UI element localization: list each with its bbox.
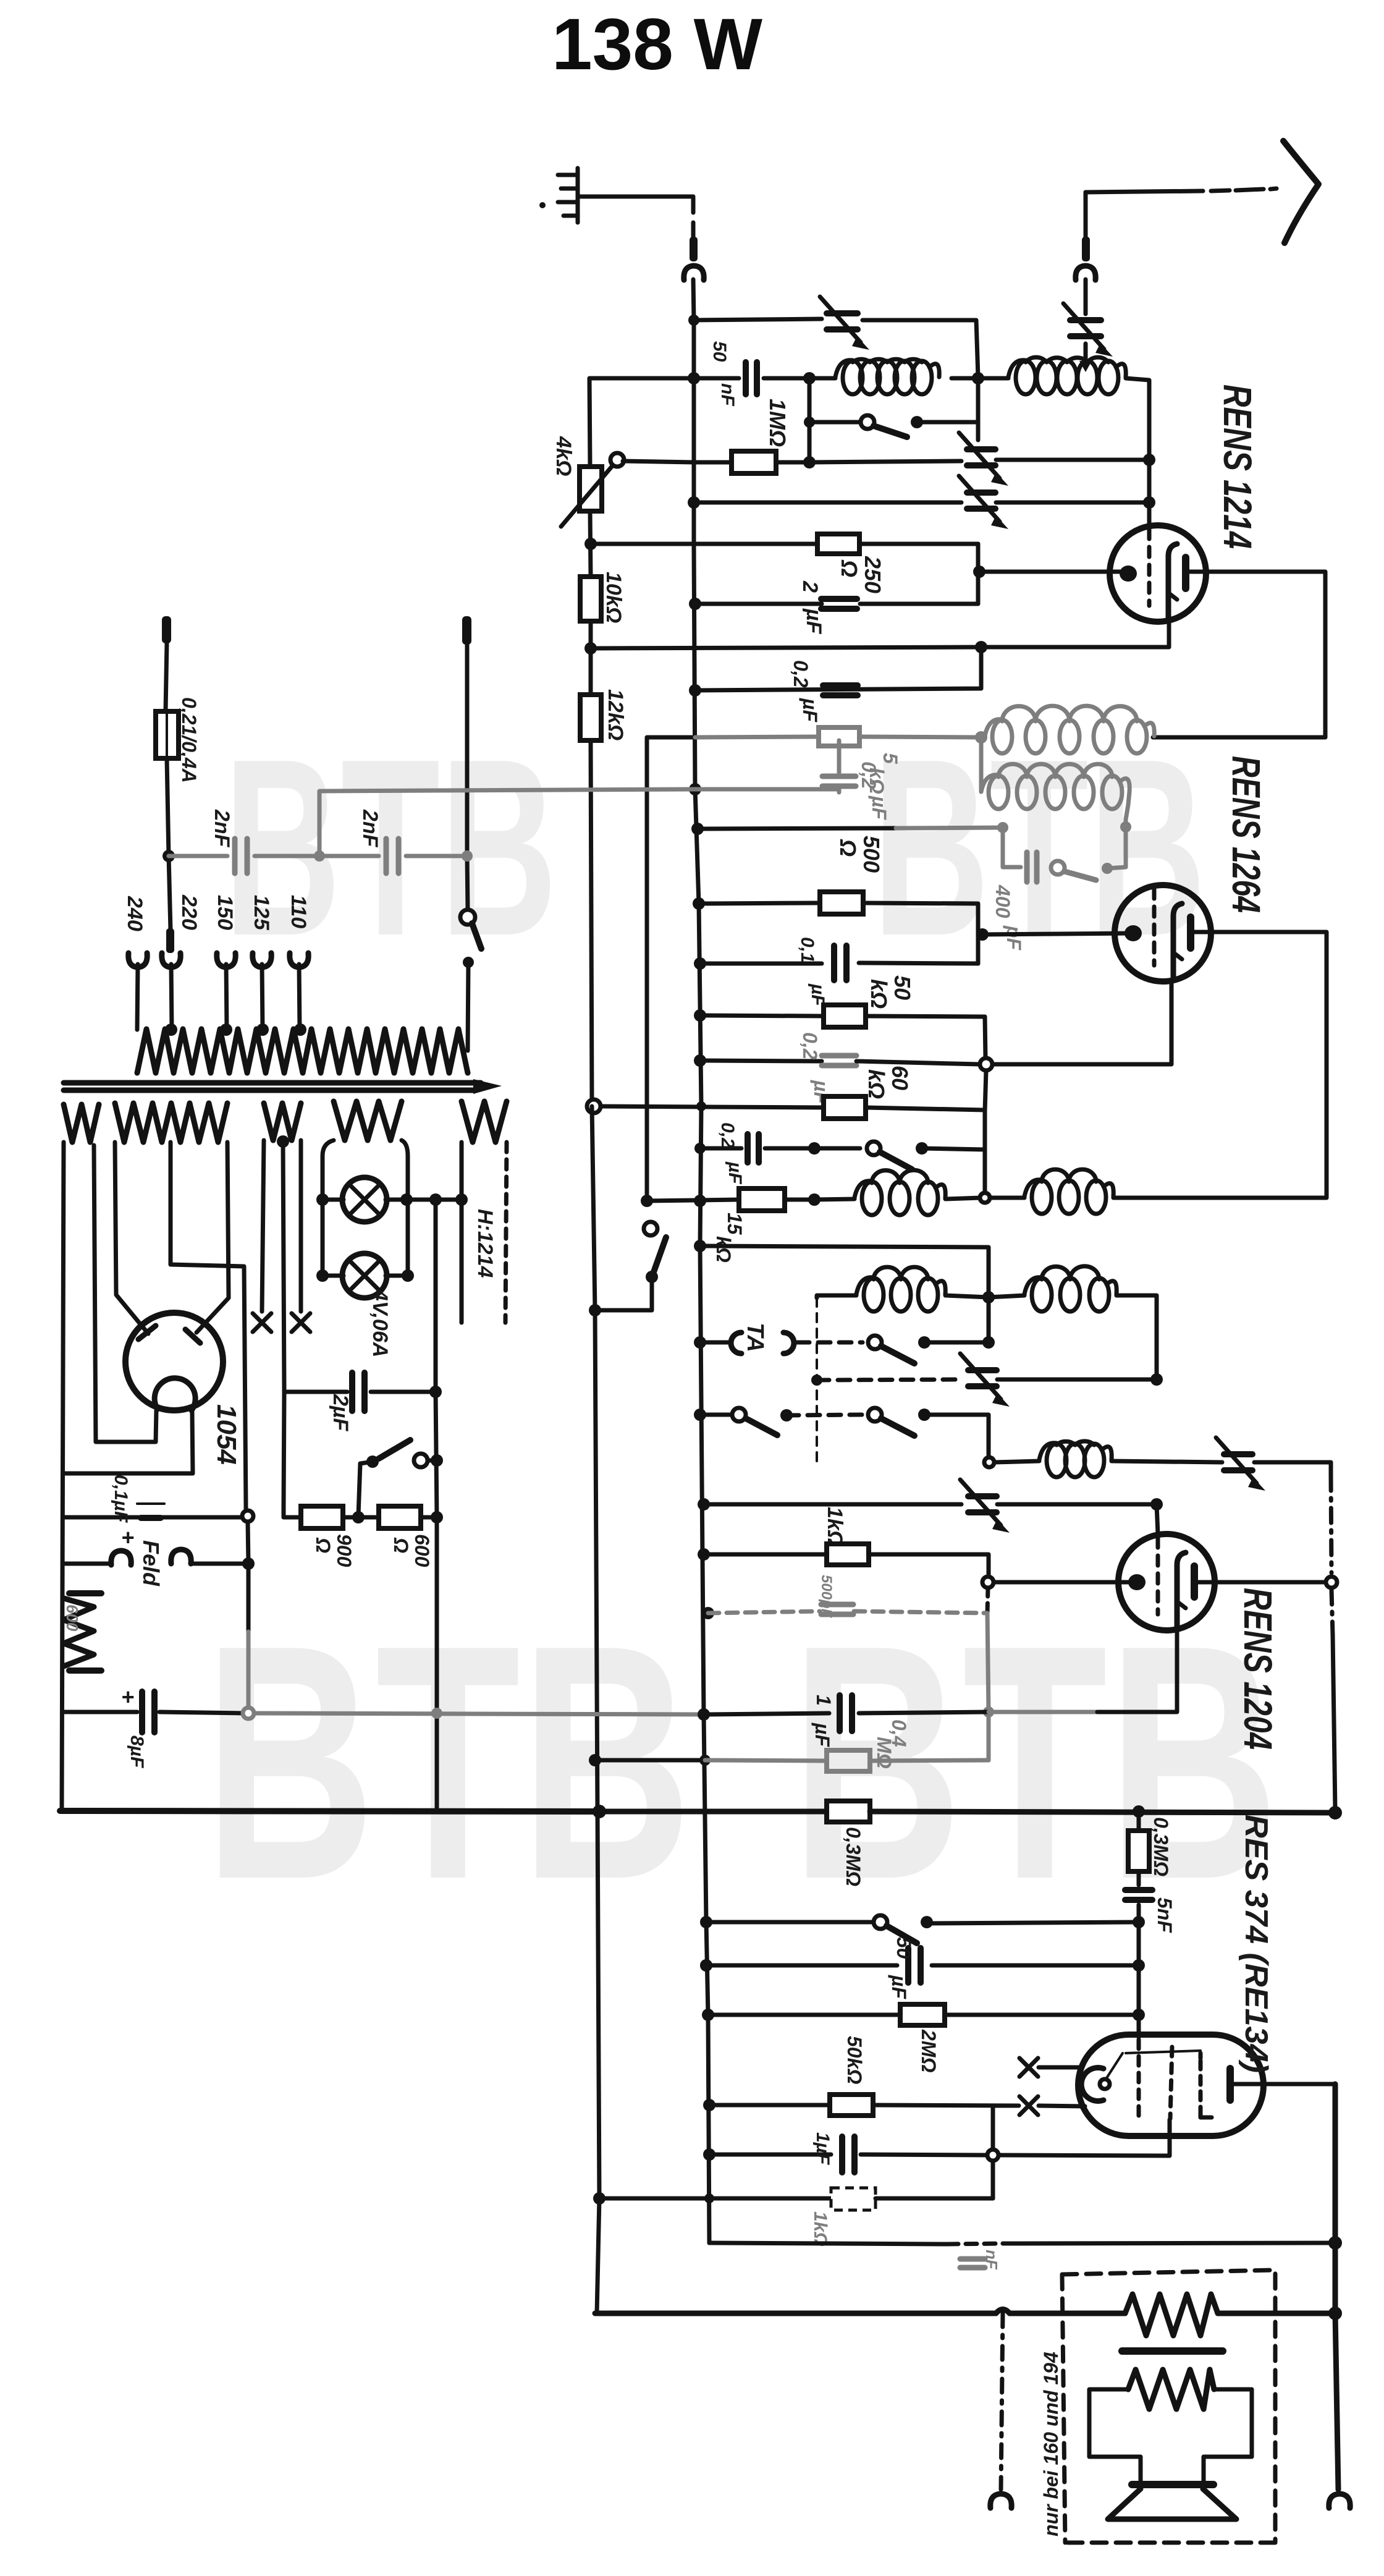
plug pin 220 <box>166 928 174 953</box>
tube RENS1204 grid dashed <box>1156 1538 1160 1614</box>
grid chain 0.3M vertical <box>1137 1811 1141 1831</box>
tube RES374 grid wire <box>1126 2051 1200 2053</box>
tube RENS1214 envelope <box>1110 525 1206 622</box>
wire tube1 anode lead <box>1153 572 1325 737</box>
capacitor 2uF <box>821 599 857 609</box>
antenna coil 1 <box>835 360 853 377</box>
tube RES374 filament arc <box>1081 2068 1103 2101</box>
svg-text:+: + <box>121 1525 134 1550</box>
antenna arrow <box>1283 141 1319 243</box>
svg-text:TA: TA <box>742 1323 768 1352</box>
switch band 2 <box>867 1142 880 1155</box>
trimmer capacitor osc row1 <box>967 449 995 465</box>
dial lamp 1 <box>342 1177 387 1222</box>
wire tube2 anode lead <box>1113 932 1327 1198</box>
resistor 60 kOhm <box>824 1096 866 1119</box>
svg-text:4kΩ: 4kΩ <box>552 436 575 476</box>
grid bias capacitor <box>64 1515 243 1520</box>
capacitor 0.2uF band series <box>748 1134 759 1163</box>
resistor 50 kOhm <box>824 1005 866 1027</box>
gray heater line continues right (drawn in tube3 zone) <box>700 1959 712 1972</box>
wire coil2 right end to tube top vertical <box>1126 378 1149 457</box>
mains pin 1 <box>162 616 171 643</box>
svg-text:250: 250 <box>860 556 885 593</box>
secondary winding A left <box>64 1104 99 1142</box>
svg-text:RES 374 (RE134): RES 374 (RE134) <box>1238 1815 1274 2073</box>
wave switch row y683 <box>809 420 859 425</box>
gray anode row y1193 <box>647 737 695 1201</box>
HT right lead <box>196 1142 229 1332</box>
wire 50nF to node <box>764 376 809 381</box>
Feld sockets <box>64 1562 110 1566</box>
capacitor 2nF b <box>319 854 379 858</box>
capacitor 0.1uF grid2 <box>834 946 846 980</box>
switch coil short <box>861 415 874 429</box>
svg-text:+: + <box>121 1684 134 1710</box>
svg-text:1kΩ: 1kΩ <box>810 2211 830 2247</box>
capacitor 0.2uF gray cathode2 <box>822 1056 856 1066</box>
wire bus y612 to 50nF <box>694 376 739 381</box>
tube RES374 anode <box>1226 2069 1234 2100</box>
svg-text:400: 400 <box>992 884 1014 918</box>
svg-text:RENS 1264: RENS 1264 <box>1224 756 1268 913</box>
capacitor 5nF <box>1125 1890 1152 1900</box>
svg-text:0,2: 0,2 <box>790 660 812 688</box>
coil IF b <box>1024 1180 1042 1197</box>
left bus segment <box>590 511 592 1106</box>
dashed lead left speaker <box>1001 2313 1003 2489</box>
wire row y518 bus to grid trimmer <box>694 319 822 320</box>
antenna coil 2 <box>1008 360 1026 377</box>
row y3260 2M <box>702 2009 714 2021</box>
svg-text:Ω: Ω <box>835 839 861 857</box>
negative rail y2930 <box>60 1811 599 1811</box>
wire jack to bus <box>693 279 694 320</box>
wire cathode2 <box>992 980 1171 1064</box>
svg-text:10kΩ: 10kΩ <box>602 572 625 623</box>
wire ground to antenna input jack <box>580 195 693 199</box>
svg-text:Ω: Ω <box>390 1537 412 1553</box>
wire node to trimmer3 <box>809 461 961 462</box>
svg-text:0,2: 0,2 <box>858 761 880 789</box>
tube3 anode lead <box>1196 1580 1326 1585</box>
row y3486 1uF <box>703 2148 715 2161</box>
wire node to antenna coil1 <box>809 376 835 381</box>
coil IF a <box>854 1181 872 1198</box>
row y3110 switch <box>700 1916 712 1928</box>
row y813 bus to trimmer4 <box>688 496 700 509</box>
vertical x705 <box>436 1200 437 1811</box>
vertical x400 <box>246 1508 248 1632</box>
tube RENS1264 grid dot <box>1124 925 1142 941</box>
ground <box>558 168 578 222</box>
gray coil 2 <box>979 737 984 792</box>
main bus lower segment <box>700 1106 709 2243</box>
svg-text:0,21/0,4A: 0,21/0,4A <box>178 697 200 783</box>
resistor 0.3M rail series <box>827 1801 870 1822</box>
svg-text:µF: µF <box>888 1975 910 1999</box>
svg-text:110: 110 <box>287 895 310 928</box>
heater bypass cap 2uF <box>284 1390 347 1394</box>
tube RENS1204 envelope <box>1118 1534 1215 1630</box>
resistor 10k in left bus <box>580 577 601 621</box>
resistor 250 Ohm row y880 <box>817 534 859 554</box>
dashes TA row <box>797 1341 863 1345</box>
secondary winding E heater <box>462 1101 507 1142</box>
secondary to speaker frame <box>1089 2389 1141 2482</box>
svg-text:2nF: 2nF <box>358 809 382 848</box>
svg-text:220: 220 <box>177 894 201 930</box>
resistor 1MOhm <box>732 451 776 473</box>
row y2515 resistor <box>698 1548 710 1561</box>
speaker cone <box>1108 2489 1236 2519</box>
trimmer capacitor antenna series <box>1070 320 1101 336</box>
terminal sockets <box>129 953 147 967</box>
svg-text:kΩ: kΩ <box>866 979 892 1009</box>
wire grid to tube2 <box>982 933 1133 934</box>
coil bandfilter a2 <box>816 1298 818 1461</box>
tube RENS1214 cathode <box>1168 544 1177 619</box>
gray capacitor 400pF <box>1003 828 1021 867</box>
transformer core bar <box>1122 2347 1223 2355</box>
row y1462 bus to 500 Ohm <box>693 897 705 910</box>
svg-text:500: 500 <box>859 836 884 873</box>
gray bus row y1277 <box>689 783 701 795</box>
svg-text:500pF: 500pF <box>818 1575 835 1619</box>
svg-text:2MΩ: 2MΩ <box>918 2029 940 2072</box>
small gray cap on dashes <box>960 2259 985 2268</box>
svg-text:150: 150 <box>213 895 237 930</box>
svg-text:5: 5 <box>879 753 901 765</box>
gray switch <box>1051 861 1065 875</box>
row y1790 left-bus to 60k <box>587 1099 601 1113</box>
svg-text:2nF: 2nF <box>210 809 234 848</box>
svg-text:1054: 1054 <box>211 1404 242 1465</box>
tube RENS1264 cathode <box>1173 904 1182 979</box>
speaker terminal cup left <box>990 2494 1011 2508</box>
svg-text:600: 600 <box>63 1604 82 1632</box>
svg-text:1MΩ: 1MΩ <box>765 399 790 447</box>
plug pin antenna input <box>690 237 698 261</box>
row y2772 heater/hum gray <box>250 1713 704 1714</box>
rail y3743 <box>595 2311 996 2316</box>
row y2364 coil c + trimmer <box>984 1457 994 1467</box>
tube RENS1204 cathode <box>1177 1553 1186 1628</box>
filament return <box>993 2104 1019 2108</box>
row y3180 50uF <box>700 1959 712 1972</box>
svg-text:138 W: 138 W <box>552 4 763 85</box>
lamp row 2 <box>323 1274 408 1278</box>
row y1643 bus to 50k <box>694 1009 706 1022</box>
vertical x1583 518-683 <box>976 377 981 440</box>
row y2289 switch row <box>694 1409 706 1421</box>
grid node tube2 <box>976 928 989 941</box>
screen row y1117 <box>695 647 981 690</box>
svg-text:kΩ: kΩ <box>712 1236 735 1263</box>
wire link to antenna coil 2 <box>978 376 1008 381</box>
left outline vertical <box>62 1142 64 1811</box>
capacitor 50nF <box>746 362 757 394</box>
row y2848 grid leak 0.4M <box>589 1754 601 1766</box>
tube RENS1214 grid dashed <box>1147 529 1152 606</box>
gray anode coil 1 <box>985 719 1002 736</box>
svg-text:H:1214: H:1214 <box>473 1209 497 1278</box>
row y3557 dashed resistor <box>593 2192 605 2205</box>
svg-text:4V,06A: 4V,06A <box>368 1289 392 1357</box>
wire grid to tube1 <box>979 570 1128 574</box>
row y3406 50k <box>703 2099 715 2111</box>
node bus y612 <box>688 372 700 384</box>
mains pin 2 <box>462 616 471 645</box>
svg-text:kΩ: kΩ <box>864 1069 889 1099</box>
x mark heater bottom <box>1019 2096 1038 2115</box>
speaker top bar <box>1132 2481 1213 2488</box>
svg-text:0,3MΩ: 0,3MΩ <box>842 1827 864 1886</box>
svg-text:15: 15 <box>724 1213 746 1235</box>
svg-text:pF: pF <box>1003 925 1025 951</box>
svg-text:nur bei 160 und 194: nur bei 160 und 194 <box>1040 2352 1062 2536</box>
grid row tube3 <box>982 1577 994 1588</box>
x mark heater top <box>1019 2058 1038 2077</box>
tube RENS1214 grid dot <box>1120 566 1137 582</box>
row y3629 from bus corner <box>709 2243 947 2244</box>
vertical switch-bank link x1594 <box>985 1017 986 1192</box>
svg-text:1µF: 1µF <box>812 2132 833 2165</box>
secondary winding D lamps <box>334 1101 402 1140</box>
gray mains filter row y1385 <box>169 854 227 858</box>
tube RENS1264 anode bar <box>1187 917 1194 948</box>
trimmer capacitor osc row2 <box>967 493 995 509</box>
wire trimmer to antenna coil <box>1084 344 1088 366</box>
svg-text:600: 600 <box>411 1534 433 1567</box>
grid leak vertical gray <box>987 1588 988 1613</box>
wire coil1 to vertical node <box>951 376 978 381</box>
capacitor 0.2uF screen <box>823 685 858 695</box>
svg-text:µF: µF <box>725 1161 745 1184</box>
svg-text:Feld: Feld <box>138 1540 164 1587</box>
row y2016 <box>694 1240 706 1252</box>
wire tube1 top <box>1147 460 1152 526</box>
svg-text:nF: nF <box>982 2250 1001 2270</box>
trimmer T4 <box>968 1496 997 1512</box>
svg-text:RENS 1204: RENS 1204 <box>1236 1588 1280 1750</box>
capacitor 2nF a <box>235 839 247 873</box>
resistor 600 ohm <box>358 1515 379 1520</box>
socket cup antenna lead <box>1076 266 1095 280</box>
dashed row y2233 <box>811 1375 822 1386</box>
switch TA row <box>868 1336 882 1349</box>
svg-text:0,3MΩ: 0,3MΩ <box>1150 1817 1172 1876</box>
svg-text:BTB: BTB <box>224 707 557 988</box>
secondary zigzag <box>1128 2370 1214 2409</box>
svg-text:50kΩ: 50kΩ <box>843 2036 866 2084</box>
resistor 900 ohm <box>284 1506 301 1517</box>
filament leads <box>94 1145 156 1442</box>
resistor 15 kOhm <box>739 1188 785 1211</box>
svg-text:12kΩ: 12kΩ <box>604 689 627 740</box>
svg-text:µF: µF <box>802 608 825 635</box>
svg-text:0,2: 0,2 <box>717 1122 738 1148</box>
svg-text:8µF: 8µF <box>127 1735 147 1768</box>
fuse 0.2/0.4A <box>156 711 179 758</box>
svg-text:RENS 1214: RENS 1214 <box>1215 384 1260 549</box>
mains switch <box>460 910 475 925</box>
capacitor 1uF <box>840 1695 852 1731</box>
svg-text:900: 900 <box>333 1534 355 1567</box>
HT left lead <box>115 1142 148 1334</box>
gray riser coil2 right <box>1126 792 1129 827</box>
tube RES374 grid dashes <box>1137 2040 1141 2122</box>
svg-text:0,1: 0,1 <box>797 937 817 963</box>
resistor 12k in left bus <box>580 695 601 740</box>
svg-text:0,1µF: 0,1µF <box>111 1475 131 1523</box>
plug pin antenna lead <box>1082 237 1090 261</box>
hum resistor zigzag in left rail <box>69 1590 101 1596</box>
svg-text:2: 2 <box>798 580 822 593</box>
tube RENS1204 anode bar <box>1191 1566 1198 1597</box>
trimmer band T1 <box>968 1370 997 1386</box>
coil bandfilter b2 <box>989 1295 1024 1297</box>
svg-text:Ω: Ω <box>312 1537 334 1553</box>
volume switch on middle vertical <box>644 1222 657 1235</box>
tube 1054 anode bars <box>138 1326 156 1339</box>
row y1341 bus to gray switch <box>691 823 704 835</box>
wire bus left to left-bus top corner <box>589 378 694 467</box>
resistor 500 Ohm <box>820 892 863 914</box>
vertical link x1310 <box>808 378 812 462</box>
trimmer grid3 big <box>1224 1454 1252 1470</box>
svg-text:60: 60 <box>887 1066 913 1090</box>
TA terminals <box>694 1336 706 1349</box>
wire to tube3 top <box>1157 1504 1158 1534</box>
dial lamp 2 <box>342 1253 387 1298</box>
resistor 5k gray <box>695 737 819 737</box>
svg-text:µF: µF <box>868 795 890 820</box>
wire antenna down-lead <box>1086 189 1276 192</box>
wire trimmer3 to tube vertical <box>996 458 1149 462</box>
svg-text:0,2: 0,2 <box>799 1032 821 1060</box>
speaker terminal cup right <box>1329 2494 1350 2508</box>
socket cup antenna input <box>684 266 704 280</box>
row y2610 gray band cap <box>702 1607 714 1619</box>
HT center tap <box>171 1142 246 1508</box>
trimmer capacitor 1st grid row <box>827 313 858 329</box>
svg-text:1: 1 <box>812 1695 835 1706</box>
shorting switch 600ohm <box>358 1462 373 1515</box>
tube RENS1214 anode bar <box>1182 557 1189 588</box>
dash-dot vertical right x2155 <box>1331 1476 1331 1573</box>
cathode row tube1 y1049 <box>591 620 1169 648</box>
svg-text:50: 50 <box>893 1937 915 1959</box>
row y2434 trimmer row <box>698 1498 710 1510</box>
svg-text:1kΩ: 1kΩ <box>823 1507 846 1546</box>
svg-text:nF: nF <box>717 383 738 406</box>
left bus middle segment <box>592 1106 599 2313</box>
row y1940 15k + coils <box>641 1195 653 1207</box>
wire pot wiper to 1M row <box>623 461 732 462</box>
svg-text:MΩ: MΩ <box>873 1737 895 1769</box>
svg-text:5nF: 5nF <box>1154 1897 1176 1933</box>
vertical x1607 <box>991 2106 995 2198</box>
svg-text:50: 50 <box>890 975 915 1000</box>
tube RENS1204 grid dot <box>1128 1574 1146 1590</box>
secondary winding B HT <box>115 1103 227 1142</box>
wire trimmer to corner x1583 <box>863 320 978 377</box>
wire 250 row to right <box>859 542 978 546</box>
main bus top segment <box>694 320 701 1106</box>
tube RES374 envelope <box>1078 2035 1264 2136</box>
svg-text:2µF: 2µF <box>329 1394 352 1431</box>
wire to antenna trimmer <box>1084 279 1088 314</box>
svg-text:125: 125 <box>250 895 273 931</box>
grid circuit rows tube1 <box>584 538 597 550</box>
svg-text:µF: µF <box>799 698 821 722</box>
right vertical to speaker <box>1335 2084 1338 2489</box>
svg-text:µF: µF <box>811 1722 833 1747</box>
electrolytic 8uF <box>62 1710 137 1714</box>
row y1559 bus to cap <box>694 957 706 970</box>
secondary winding C rect filament <box>264 1103 301 1140</box>
tube 1054 envelope <box>125 1313 223 1410</box>
lamp row 1 <box>323 1198 462 1202</box>
svg-text:Ω: Ω <box>837 559 862 577</box>
primary winding <box>137 1029 468 1073</box>
row y1858 band cap + switch <box>694 1143 706 1154</box>
row y1716 bus to gray cap <box>694 1054 706 1067</box>
core <box>64 1083 481 1090</box>
tube 1054 filament loop <box>154 1378 195 1410</box>
dashed speaker box <box>1062 2270 1275 2543</box>
tube RENS1264 grid dashed <box>1152 889 1157 965</box>
tube RENS1264 envelope <box>1115 885 1211 981</box>
svg-text:50: 50 <box>709 341 730 362</box>
gray capacitor 0.2uF to bus row <box>837 740 842 792</box>
svg-text:BTB: BTB <box>791 1576 1279 1949</box>
svg-text:240: 240 <box>123 896 146 931</box>
gray riser to bus row <box>319 789 695 856</box>
wire 1M to node <box>776 460 809 465</box>
output transformer primary zigzag <box>1125 2294 1218 2336</box>
node antenna tap arrowhead <box>1079 361 1092 372</box>
